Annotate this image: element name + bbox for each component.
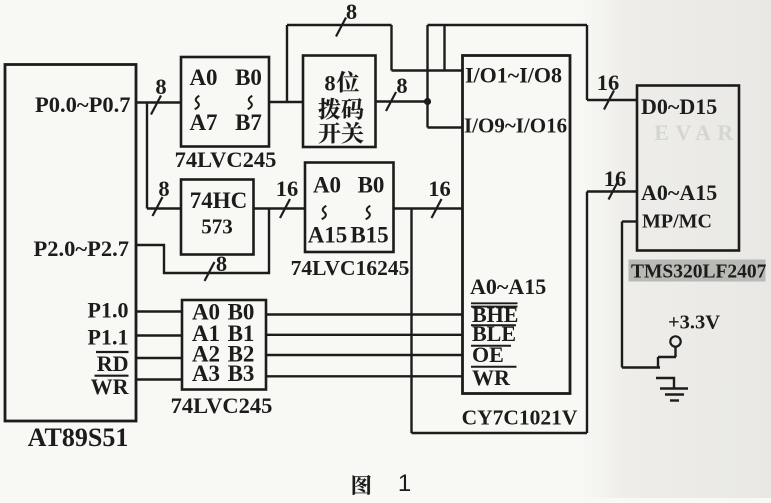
svg-text:A0: A0 bbox=[313, 173, 341, 198]
svg-text:B3: B3 bbox=[228, 361, 255, 386]
svg-text:16: 16 bbox=[604, 166, 627, 191]
svg-text:8: 8 bbox=[155, 74, 166, 99]
svg-text:8: 8 bbox=[158, 176, 169, 201]
svg-text:P2.0~P2.7: P2.0~P2.7 bbox=[34, 236, 129, 261]
svg-text:+3.3V: +3.3V bbox=[668, 312, 720, 334]
svg-text:B15: B15 bbox=[350, 223, 388, 248]
svg-text:74HC: 74HC bbox=[190, 188, 248, 213]
svg-text:EVAR: EVAR bbox=[654, 120, 740, 145]
svg-text:P0.0~P0.7: P0.0~P0.7 bbox=[35, 92, 130, 117]
svg-text:RD: RD bbox=[97, 351, 129, 376]
svg-text:I/O1~I/O8: I/O1~I/O8 bbox=[465, 63, 562, 88]
svg-text:8: 8 bbox=[216, 251, 227, 276]
svg-text:8: 8 bbox=[346, 0, 357, 24]
svg-text:A0: A0 bbox=[189, 65, 217, 90]
svg-text:74LVC16245: 74LVC16245 bbox=[291, 256, 410, 280]
svg-text:WR: WR bbox=[91, 374, 130, 399]
svg-text:16: 16 bbox=[276, 176, 299, 201]
svg-text:16: 16 bbox=[428, 176, 451, 201]
svg-text:A0~A15: A0~A15 bbox=[470, 274, 546, 299]
svg-text:MP/MC: MP/MC bbox=[642, 211, 712, 233]
svg-text:B7: B7 bbox=[235, 110, 262, 135]
svg-text:B0: B0 bbox=[358, 173, 385, 198]
svg-text:I/O9~I/O16: I/O9~I/O16 bbox=[464, 114, 567, 138]
svg-text:A0~A15: A0~A15 bbox=[641, 180, 717, 205]
svg-text:B0: B0 bbox=[235, 65, 262, 90]
svg-text:A3: A3 bbox=[192, 361, 220, 386]
svg-text:A7: A7 bbox=[189, 110, 217, 135]
svg-text:573: 573 bbox=[201, 215, 233, 239]
svg-text:A15: A15 bbox=[308, 223, 348, 248]
svg-text:TMS320LF2407: TMS320LF2407 bbox=[631, 262, 767, 283]
svg-text:CY7C1021V: CY7C1021V bbox=[462, 406, 578, 430]
svg-text:1: 1 bbox=[398, 470, 411, 497]
svg-text:74LVC245: 74LVC245 bbox=[175, 147, 277, 172]
svg-text:74LVC245: 74LVC245 bbox=[171, 393, 273, 418]
svg-text:WR: WR bbox=[472, 365, 511, 390]
svg-text:P1.1: P1.1 bbox=[88, 325, 129, 350]
svg-text:8: 8 bbox=[396, 73, 407, 98]
svg-text:AT89S51: AT89S51 bbox=[28, 423, 129, 452]
svg-text:D0~D15: D0~D15 bbox=[641, 94, 717, 119]
svg-text:8: 8 bbox=[324, 71, 335, 96]
svg-text:16: 16 bbox=[597, 70, 620, 95]
svg-text:P1.0: P1.0 bbox=[88, 298, 129, 323]
